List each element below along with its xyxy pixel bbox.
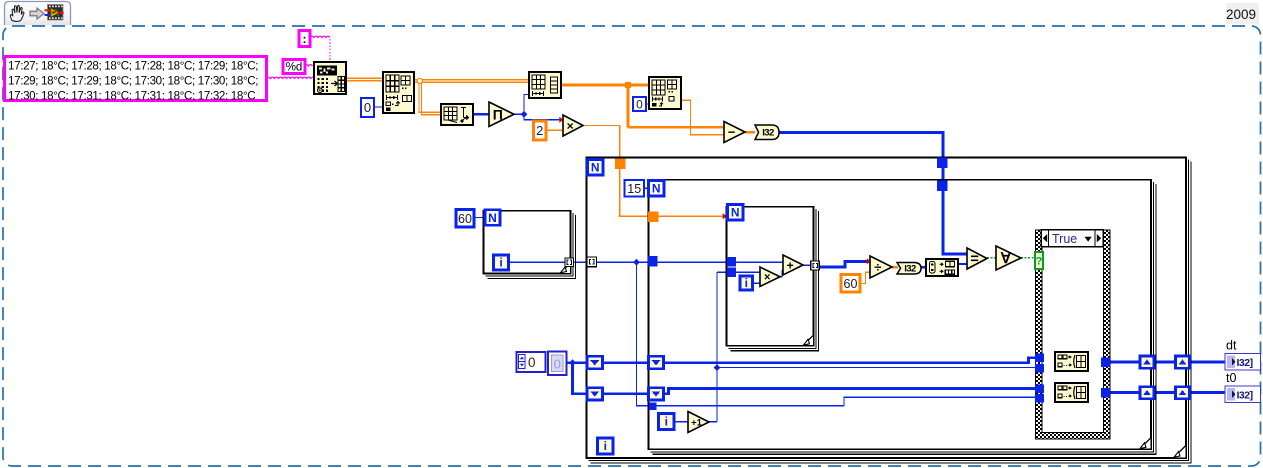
svg-text:×: × <box>567 119 574 133</box>
svg-text:2009: 2009 <box>1226 7 1256 22</box>
svg-text:N: N <box>652 181 661 195</box>
svg-text:I32]: I32] <box>1237 390 1253 402</box>
svg-text:17:30; 18°C; 17:31; 18°C; 17:3: 17:30; 18°C; 17:31; 18°C; 17:31; 18°C; 1… <box>8 90 255 103</box>
svg-text:i: i <box>665 415 668 429</box>
svg-text:i: i <box>604 439 607 453</box>
svg-text:15: 15 <box>627 182 641 196</box>
svg-text:=: = <box>970 252 978 268</box>
svg-text:+: + <box>787 258 794 272</box>
svg-text:+1: +1 <box>691 417 703 428</box>
svg-text:60: 60 <box>844 277 858 291</box>
svg-text:0: 0 <box>636 97 643 111</box>
svg-text:0: 0 <box>554 357 561 372</box>
svg-text:%d: %d <box>286 62 303 74</box>
svg-text::: : <box>303 32 307 46</box>
svg-text:i: i <box>745 276 748 290</box>
svg-text:∀: ∀ <box>1000 251 1012 267</box>
svg-text:0: 0 <box>364 100 371 115</box>
svg-text:Π: Π <box>493 106 503 122</box>
svg-text:17:27; 18°C; 17:28; 18°C; 17:2: 17:27; 18°C; 17:28; 18°C; 17:28; 18°C; 1… <box>8 60 258 73</box>
svg-text:I32: I32 <box>904 264 916 275</box>
svg-text:t0: t0 <box>1226 371 1236 385</box>
svg-text:2: 2 <box>536 123 543 138</box>
svg-text:N: N <box>488 211 497 225</box>
svg-text:True: True <box>1052 232 1077 246</box>
svg-text:N: N <box>731 205 740 219</box>
svg-text:N: N <box>591 160 600 174</box>
svg-text:×: × <box>764 272 770 284</box>
svg-text:I32: I32 <box>762 128 774 139</box>
svg-text:i: i <box>499 256 502 270</box>
svg-text:17:29; 18°C; 17:29; 18°C; 17:3: 17:29; 18°C; 17:29; 18°C; 17:30; 18°C; 1… <box>8 75 258 88</box>
svg-text:÷: ÷ <box>874 260 881 275</box>
svg-text:dt: dt <box>1226 339 1237 353</box>
svg-text:60: 60 <box>458 212 472 226</box>
svg-text:0: 0 <box>528 355 536 370</box>
svg-text:−: − <box>728 125 736 140</box>
svg-text:I32]: I32] <box>1237 357 1253 369</box>
svg-text:?: ? <box>1036 256 1043 268</box>
